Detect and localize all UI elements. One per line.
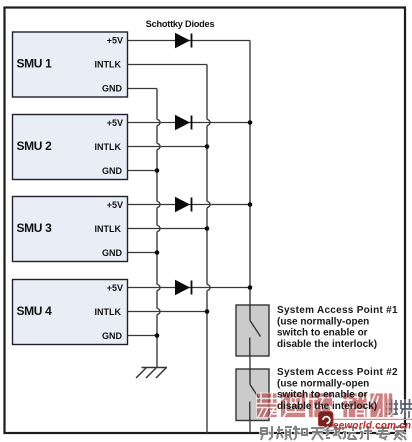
junction SMU4 INTLK on INTLK rail	[205, 309, 210, 314]
red char 2 carve	[281, 393, 306, 418]
svg-text:GND: GND	[102, 166, 123, 176]
diode D1	[175, 33, 192, 49]
SMU 4 box	[13, 280, 128, 345]
svg-text:disable the interlock): disable the interlock)	[277, 401, 377, 412]
red char 3 carve	[309, 393, 333, 418]
INTLK rail vertical with hops over +5V rows	[206, 65, 208, 434]
wire SMU4 INTLK row	[128, 311, 208, 313]
bottom grey watermark row (RF and antenna design experts)	[261, 425, 406, 440]
svg-text:+5V: +5V	[107, 283, 123, 293]
grey watermark chars (world)	[386, 399, 412, 418]
svg-text:INTLK: INTLK	[95, 224, 122, 234]
svg-text:disable the interlock): disable the interlock)	[277, 339, 377, 350]
junction SMU2 GND on GND rail	[155, 168, 160, 173]
SMU 1 box	[13, 32, 128, 97]
red char 5 carve	[372, 393, 394, 418]
junction SMU4 +5V on +5V rail	[248, 285, 253, 290]
SMU 2 box	[13, 115, 128, 180]
+5V rail vertical	[249, 41, 251, 306]
wire switch S2 to bottom bus	[249, 421, 251, 434]
junction SMU3 GND on GND rail	[155, 250, 160, 255]
svg-text:System Access Point #1: System Access Point #1	[277, 305, 398, 316]
svg-text:SMU 1: SMU 1	[17, 57, 53, 71]
System Access Point #2 text line3-4 (over watermark)	[277, 390, 377, 412]
junction SMU4 GND on GND rail	[155, 333, 160, 338]
junction SMU3 INTLK on INTLK rail	[205, 226, 210, 231]
hop arc GND rail over SMU2 INTLK	[157, 144, 160, 150]
bottom char 6	[343, 427, 357, 439]
wire SMU2 +5V row	[128, 122, 251, 124]
svg-text:(use normally-open: (use normally-open	[277, 378, 369, 389]
red watermark glyphs (easy-datop training)	[257, 393, 394, 418]
wire SMU3 GND row	[128, 252, 158, 254]
svg-text:System Access Point #2: System Access Point #2	[277, 367, 398, 378]
svg-text:+5V: +5V	[107, 200, 123, 210]
svg-text:Schottky Diodes: Schottky Diodes	[146, 19, 215, 29]
wire SMU2 INTLK row	[128, 146, 208, 148]
svg-text:GND: GND	[102, 248, 123, 258]
switch S1 box (System Access Point #1)	[236, 305, 269, 356]
hop arc GND rail over SMU4 INTLK	[157, 309, 160, 315]
hop arc INTLK rail over SMU3 +5V	[207, 202, 210, 208]
svg-text:switch to enable or: switch to enable or	[277, 390, 368, 401]
GND rail vertical with hops	[156, 89, 158, 368]
wire SMU3 +5V row	[128, 204, 251, 206]
wire SMU4 GND row	[128, 335, 158, 337]
svg-text:+5V: +5V	[107, 118, 123, 128]
hop arc INTLK rail over SMU2 +5V	[207, 120, 210, 126]
svg-text:INTLK: INTLK	[95, 307, 122, 317]
System Access Point #1 text	[277, 305, 398, 350]
hop arc GND rail over SMU4 +5V	[157, 285, 160, 291]
diode D2	[175, 115, 192, 131]
svg-text:SMU 2: SMU 2	[17, 139, 53, 153]
svg-text:INTLK: INTLK	[95, 142, 122, 152]
System Access Point #2 text line1-2	[277, 367, 398, 389]
svg-text:(use normally-open: (use normally-open	[277, 316, 369, 327]
bottom char 4	[311, 428, 324, 440]
wire SMU1 +5V to diode D1 and +5V rail	[128, 40, 251, 42]
svg-text:SMU 4: SMU 4	[17, 304, 53, 318]
ground symbol	[136, 368, 167, 379]
pink underline of watermark	[330, 418, 412, 420]
diode D3	[175, 197, 192, 213]
hop arc GND rail over SMU3 +5V	[157, 202, 160, 208]
red char 1 carve	[257, 393, 278, 418]
eeworld logo	[319, 412, 347, 431]
hop arc GND rail over SMU2 +5V	[157, 120, 160, 126]
bottom char 7	[360, 426, 372, 440]
hop arc INTLK rail over SMU4 +5V	[207, 285, 210, 291]
bottom char 2	[277, 426, 292, 440]
diode D4	[175, 280, 192, 296]
svg-text:SMU 3: SMU 3	[17, 221, 53, 235]
bottom char 3	[293, 426, 307, 440]
svg-text:eeworld.com.cn: eeworld.com.cn	[333, 421, 411, 432]
wire SMU3 INTLK row	[128, 228, 208, 230]
svg-text:switch to enable or: switch to enable or	[277, 328, 368, 339]
svg-text:GND: GND	[102, 331, 123, 341]
wire SMU1 INTLK to INTLK rail corner	[128, 64, 208, 66]
wire between switches	[249, 356, 251, 369]
junction SMU2 +5V on +5V rail	[248, 120, 253, 125]
red char 4 carve	[343, 393, 367, 418]
wire SMU4 +5V row	[128, 287, 251, 289]
junction SMU2 INTLK on INTLK rail	[205, 144, 210, 149]
SMU 3 box	[13, 197, 128, 262]
junction SMU3 +5V on +5V rail	[248, 202, 253, 207]
wire SMU2 GND row	[128, 170, 158, 172]
svg-text:GND: GND	[102, 83, 123, 93]
switch S2 box (System Access Point #2)	[236, 369, 269, 421]
wire SMU1 GND to GND rail corner	[128, 88, 158, 90]
bottom char 8	[376, 426, 390, 440]
bottom char 9	[394, 425, 406, 440]
svg-text:+5V: +5V	[107, 35, 123, 45]
bottom char 1	[261, 426, 272, 440]
svg-text:INTLK: INTLK	[95, 59, 122, 69]
bottom char 5	[326, 426, 341, 439]
hop arc GND rail over SMU3 INTLK	[157, 226, 160, 232]
